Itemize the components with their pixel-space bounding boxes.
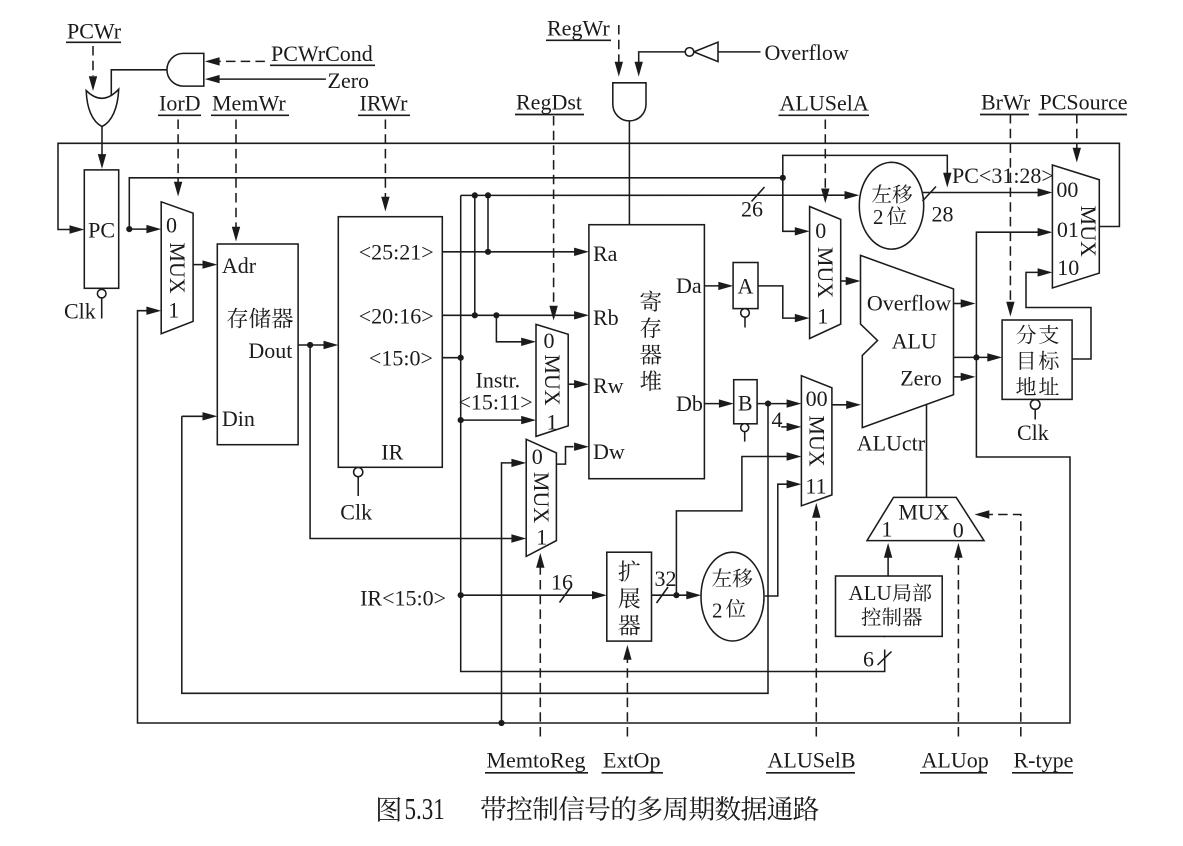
svg-text:PC<31:28>: PC<31:28>	[952, 163, 1054, 188]
svg-text:<15:0>: <15:0>	[369, 346, 433, 371]
wire G4 out to G3	[639, 52, 686, 64]
svg-text:ExtOp: ExtOp	[603, 748, 660, 773]
wire M2 out to Rw	[568, 383, 576, 385]
label 左移 1	[872, 184, 891, 202]
svg-text:1: 1	[817, 304, 828, 329]
svg-text:MUX: MUX	[165, 242, 190, 293]
junction ALU result	[973, 354, 979, 360]
svg-text:<15:11>: <15:11>	[459, 390, 533, 415]
svg-text:Zero: Zero	[328, 68, 370, 93]
wire M5 out to ALU	[832, 404, 849, 406]
wire PC out to IorD mux	[129, 228, 149, 230]
svg-text:Ra: Ra	[593, 241, 618, 266]
and-gate G2 PCWrCond.Zero	[167, 53, 204, 86]
svg-text:Db: Db	[676, 391, 703, 416]
mux M3 MemtoReg	[526, 439, 556, 556]
junction B out	[765, 401, 771, 407]
memory 存储器	[217, 244, 298, 445]
shifter 左移2位 jump	[859, 162, 923, 249]
mux M7 PCSource	[1052, 165, 1099, 288]
svg-text:MUX: MUX	[1076, 206, 1101, 257]
svg-text:10: 10	[1057, 255, 1079, 280]
label 寄存器堆	[641, 291, 662, 312]
svg-text:<25:21>: <25:21>	[359, 240, 434, 265]
wire PC<31:28> feed	[783, 155, 948, 177]
register 分支目标地址	[1002, 320, 1072, 399]
wire A out to ALUSelA mux 1	[758, 286, 798, 318]
svg-text:1: 1	[881, 517, 892, 542]
svg-text:B: B	[738, 391, 753, 416]
svg-text:MemtoReg: MemtoReg	[487, 748, 586, 773]
junction ALUout bottom	[498, 720, 504, 726]
wire ALUout feedback loop	[138, 311, 1071, 723]
svg-text:Clk: Clk	[64, 298, 96, 323]
svg-text:0: 0	[166, 213, 177, 238]
wire Dout to IR	[298, 344, 325, 346]
wire Zero	[218, 78, 326, 80]
shifter 左移2位 branch	[701, 552, 764, 641]
svg-text:R-type: R-type	[1014, 748, 1074, 773]
svg-text:Clk: Clk	[1017, 420, 1049, 445]
svg-text:Din: Din	[222, 406, 255, 431]
svg-text:0: 0	[544, 328, 555, 353]
svg-text:BrWr: BrWr	[981, 90, 1031, 115]
junction ir15:0 low	[458, 592, 464, 598]
junction wireC a	[472, 192, 478, 198]
wire IR<25:21> to Ra	[442, 251, 576, 253]
alu U1	[861, 255, 954, 427]
svg-text:IorD: IorD	[159, 91, 201, 116]
svg-text:6: 6	[863, 647, 874, 672]
register-file 寄存器堆	[589, 225, 705, 479]
svg-text:ALUSelB: ALUSelB	[768, 748, 856, 773]
mux M6 R-type select	[867, 497, 984, 540]
svg-text:Rw: Rw	[593, 373, 624, 398]
svg-text:0: 0	[815, 218, 826, 243]
wire B to Din feedback	[182, 404, 768, 694]
svg-text:00: 00	[806, 386, 828, 411]
wire R-type dashed	[988, 515, 1021, 737]
wire jump-address bus (wire C)	[461, 194, 846, 196]
clock bubble PC	[97, 289, 106, 298]
wire IR<20:16> to Rb	[442, 314, 576, 316]
wire ExtOp dashed	[626, 658, 628, 737]
label 控制器	[862, 607, 881, 626]
svg-text:PCWr: PCWr	[67, 19, 122, 44]
label 左移 2	[712, 568, 731, 586]
svg-text:11: 11	[805, 474, 826, 499]
mux M4 ALUSelA	[810, 207, 841, 339]
wire M3 out to Dw	[556, 447, 573, 464]
wire BrWr dashed	[1009, 114, 1011, 304]
wire ALUout up to PC-mux 01	[976, 232, 1039, 357]
wire IorD dashed	[177, 120, 179, 184]
clock bubble B	[741, 424, 749, 432]
junction 20:16 jump	[472, 312, 478, 318]
register A	[733, 263, 758, 309]
svg-text:RegDst: RegDst	[516, 90, 582, 115]
wire ALUout to M3 in0	[502, 463, 514, 723]
wire PC bus up-right (wire B)	[129, 178, 783, 229]
wire extender out	[652, 594, 689, 596]
wire ALU result to BTA	[954, 356, 990, 358]
svg-text:MUX: MUX	[898, 500, 949, 525]
label 分支目标地址	[1016, 325, 1036, 344]
wire M1 out to Adr	[193, 264, 205, 266]
svg-text:16: 16	[551, 570, 573, 595]
wire PCSource dashed	[1076, 114, 1078, 150]
slash 16	[560, 588, 571, 603]
svg-text:28: 28	[932, 202, 954, 227]
svg-text:PCWrCond: PCWrCond	[271, 41, 373, 66]
svg-text:1: 1	[168, 298, 179, 323]
svg-text:1: 1	[547, 409, 558, 434]
and-gate G3 RegWr enable	[613, 83, 646, 121]
svg-text:32: 32	[655, 566, 677, 591]
register B	[734, 380, 757, 424]
junction PC bus at ALUSelA drop	[780, 175, 786, 181]
label 存储器	[227, 308, 247, 329]
junction 25:21 jump	[485, 249, 491, 255]
svg-text:Zero: Zero	[900, 366, 942, 391]
wire Din feed	[182, 415, 205, 417]
wire extender to ALUSelB mux 10	[676, 457, 788, 596]
junction wireC b	[485, 192, 491, 198]
wire M4 out to ALU	[841, 280, 848, 282]
junction instr15:11	[458, 417, 464, 423]
svg-text:PC: PC	[88, 217, 115, 242]
svg-text:Overflow: Overflow	[867, 291, 951, 316]
svg-text:RegWr: RegWr	[547, 15, 610, 40]
svg-text:MUX: MUX	[529, 472, 554, 523]
controller ALU局部控制器	[836, 576, 943, 636]
register PC	[84, 170, 118, 288]
wire ALUSelA dashed	[824, 120, 826, 191]
wire ALUSelB dashed	[815, 516, 817, 737]
svg-text:IR<15:0>: IR<15:0>	[360, 586, 446, 611]
svg-text:26: 26	[741, 197, 763, 222]
mux M2 RegDst	[536, 324, 568, 436]
clock bubble BTA	[1030, 400, 1040, 410]
svg-text:A: A	[737, 274, 753, 299]
svg-text:00: 00	[1056, 177, 1078, 202]
or-gate G1 PC-write	[86, 89, 119, 126]
wire vert IR15:0 down + funct	[461, 195, 885, 671]
svg-text:ALU: ALU	[892, 329, 937, 354]
wire PCWrCond dashed	[218, 60, 265, 62]
wire MemWr dashed	[235, 120, 237, 229]
wire vert 25:21 up	[487, 195, 489, 251]
wire vert 20:16 up	[474, 195, 476, 315]
extender 扩展器	[607, 552, 652, 641]
wire controller out to M6	[887, 555, 889, 576]
svg-text:Dout: Dout	[248, 338, 292, 363]
junction 20:16 regdst	[493, 312, 499, 318]
svg-text:Adr: Adr	[222, 253, 257, 278]
wire const-4 stub	[781, 426, 788, 428]
wire Overflow out	[954, 303, 964, 305]
svg-text:Clk: Clk	[340, 500, 372, 525]
svg-text:0: 0	[532, 444, 543, 469]
svg-text:1: 1	[536, 525, 547, 550]
svg-text:MUX: MUX	[813, 247, 838, 298]
wire shifter out to PC-mux 00	[922, 192, 1040, 194]
wire Db to B	[704, 403, 721, 405]
svg-text:Rb: Rb	[593, 305, 619, 330]
svg-text:Da: Da	[676, 273, 702, 298]
junction Dout	[307, 342, 313, 348]
svg-text:MUX: MUX	[540, 354, 565, 405]
svg-text:01: 01	[1057, 217, 1079, 242]
wire ALUop dashed	[957, 556, 959, 737]
wire IR15:0 to extender	[461, 594, 594, 596]
wire Da to A	[704, 285, 720, 287]
svg-text:MUX: MUX	[805, 415, 830, 466]
slash 32	[657, 587, 669, 603]
slash 26	[752, 187, 765, 202]
junction 15:0	[458, 355, 464, 361]
svg-text:ALUctr: ALUctr	[857, 431, 926, 456]
svg-text:Overflow: Overflow	[765, 40, 849, 65]
wire Dout to MemtoReg mux 1	[310, 345, 513, 539]
svg-text:MemWr: MemWr	[212, 91, 286, 116]
svg-text:2: 2	[712, 599, 723, 623]
svg-text:IRWr: IRWr	[360, 91, 409, 116]
wire G3 out to regfile	[628, 121, 630, 225]
svg-text:4: 4	[772, 407, 783, 432]
wire PC to ALUSelA mux 0	[783, 178, 798, 232]
clock bubble IR	[354, 468, 363, 477]
clock bubble A	[741, 309, 750, 318]
slash 28	[923, 187, 937, 202]
caption 图5.31	[378, 797, 401, 822]
wire PCWr dashed	[92, 46, 94, 76]
wire IR<15:0> stub	[442, 357, 460, 359]
node PC-out junction	[126, 226, 132, 232]
wire G2 out to OR	[111, 70, 167, 96]
svg-text:IR: IR	[381, 439, 403, 464]
svg-text:0: 0	[953, 518, 964, 543]
svg-text:ALUop: ALUop	[922, 748, 989, 773]
wire IRWr dashed	[384, 120, 386, 199]
svg-text:2: 2	[873, 205, 884, 229]
junction extender out	[673, 592, 679, 598]
svg-text:PCSource: PCSource	[1040, 90, 1128, 115]
register IR	[338, 217, 442, 468]
wire shifter2 to ALUSelB mux 11	[765, 484, 789, 596]
wire B out to ALUSelB mux 00	[757, 403, 788, 405]
wire 15:11 to RegDst mux 1	[461, 419, 524, 421]
inverter G4 Overflow	[718, 51, 761, 53]
wire RegDst dashed	[553, 116, 555, 308]
slash 6	[878, 652, 892, 666]
svg-text:ALU: ALU	[849, 581, 892, 605]
mux M1 IorD	[161, 202, 193, 334]
svg-text:Dw: Dw	[593, 439, 625, 464]
svg-text:5.31: 5.31	[405, 792, 445, 826]
wire RegWr dashed	[618, 25, 620, 64]
wire Zero out	[954, 376, 964, 378]
wire BTA out to PC-mux 10	[1026, 272, 1091, 359]
wire G1 out to PC	[101, 127, 103, 156]
wire 20:16 to RegDst mux 0	[496, 315, 523, 342]
svg-text:ALUSelA: ALUSelA	[780, 91, 869, 116]
wire PC-mux output feedback	[58, 143, 1119, 229]
svg-text:<20:16>: <20:16>	[359, 304, 434, 329]
wire MemtoReg dashed	[539, 566, 541, 737]
wire ALUctr	[926, 404, 928, 497]
mux M5 ALUSelB	[801, 376, 832, 506]
